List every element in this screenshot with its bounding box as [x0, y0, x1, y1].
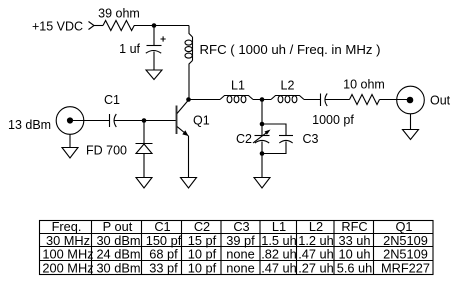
- diode FD 700 cathode bar: [136, 143, 153, 145]
- svg-text:33 pf: 33 pf: [149, 260, 178, 275]
- svg-text:C3: C3: [303, 132, 319, 146]
- transistor Q1 emitter lead: [177, 127, 189, 137]
- svg-text:.47 uh: .47 uh: [261, 260, 297, 275]
- plus polarity mark: [161, 36, 166, 41]
- inductor RFC: [185, 37, 193, 61]
- inductor L1: [220, 96, 253, 103]
- ground under input connector: [62, 148, 78, 159]
- input connector J1: [56, 107, 84, 135]
- svg-text:P out: P out: [103, 219, 133, 234]
- transistor Q1 collector lead: [177, 100, 189, 114]
- table row 30 MHz: [46, 233, 428, 248]
- table row 200 MHz: [42, 260, 430, 275]
- wire R 10 ohm to output connector: [380, 99, 408, 101]
- svg-text:30 dBm: 30 dBm: [96, 260, 140, 275]
- wire node down to diode: [143, 121, 145, 144]
- svg-text:Out: Out: [430, 94, 451, 108]
- svg-text:RFC: RFC: [341, 219, 367, 234]
- wire input connector to ground: [69, 134, 71, 147]
- capacitor 1 uf curved plate: [146, 51, 161, 54]
- node junction dot L1/L2/C2: [260, 97, 265, 102]
- wire L2 to 1000 pf: [304, 99, 321, 101]
- wire C2 bottom to node: [261, 142, 263, 154]
- svg-text:C3: C3: [233, 219, 249, 234]
- capacitor C1 flat plate: [109, 114, 111, 127]
- svg-text:+15 VDC: +15 VDC: [32, 20, 83, 34]
- wire L1 to node: [253, 99, 271, 101]
- capacitor C2 curved plate: [255, 140, 269, 143]
- svg-text:C2: C2: [194, 219, 210, 234]
- svg-text:39 ohm: 39 ohm: [98, 7, 140, 21]
- wire emitter to ground: [188, 136, 190, 178]
- svg-text:Q1: Q1: [193, 114, 210, 128]
- node collector junction dot: [186, 97, 191, 102]
- wire top rail corner down to RFC: [189, 26, 193, 38]
- capacitor C3 curved plate: [279, 140, 292, 143]
- svg-text:13 dBm: 13 dBm: [8, 118, 51, 132]
- output connector J2: [397, 86, 425, 114]
- transistor Q1 base bar: [176, 106, 178, 135]
- node junction dot C2/C3 top: [260, 122, 265, 127]
- table header row: [52, 219, 413, 234]
- input connector center pin: [67, 117, 73, 123]
- diode FD 700 triangle: [136, 144, 152, 154]
- ground under emitter: [181, 178, 197, 189]
- table column lines: [92, 221, 374, 275]
- wire C bypass to ground: [153, 52, 155, 71]
- svg-text:L1: L1: [272, 219, 286, 234]
- ground under diode: [136, 178, 152, 189]
- wire RFC to collector node: [189, 61, 193, 100]
- wire branch to C3 top: [262, 124, 286, 136]
- capacitor C2 trimmer arrow shaft: [253, 133, 267, 143]
- wire node down to C2: [261, 100, 263, 136]
- wire C3 bottom return: [262, 142, 286, 154]
- output connector center pin: [407, 97, 414, 104]
- capacitor C3 top plate: [279, 135, 293, 137]
- wire input to C1: [70, 120, 110, 122]
- svg-text:5.6 uh: 5.6 uh: [337, 260, 373, 275]
- transistor Q1 emitter arrowhead: [182, 130, 188, 136]
- svg-text:200 MHz: 200 MHz: [42, 260, 93, 275]
- wire output connector to ground: [410, 114, 412, 130]
- capacitor C2 trimmer arrowhead: [265, 130, 271, 135]
- svg-text:L2: L2: [281, 79, 295, 93]
- inductor L2: [271, 96, 304, 103]
- node junction dot supply: [152, 23, 157, 28]
- wire R1 to RFC corner: [134, 25, 189, 27]
- wire node to ground: [261, 154, 263, 178]
- wire collector node to L1: [189, 99, 221, 101]
- resistor 10 ohm: [350, 95, 380, 105]
- capacitor 1000 pf curved plate: [325, 94, 327, 107]
- capacitor 1 uf top plate: [147, 45, 162, 47]
- svg-text:C2: C2: [236, 132, 252, 146]
- capacitor 1000 pf flat plate: [320, 94, 322, 107]
- ground under 1 uf: [146, 70, 162, 80]
- svg-text:.27 uh: .27 uh: [298, 260, 334, 275]
- svg-text:Q1: Q1: [395, 219, 412, 234]
- svg-text:C1: C1: [104, 93, 120, 107]
- power input chevron connector: [89, 22, 95, 30]
- svg-text:Freq.: Freq.: [52, 219, 82, 234]
- wire node down to C bypass: [153, 26, 155, 46]
- node junction dot C2/C3 bottom: [260, 151, 265, 156]
- svg-text:1 uf: 1 uf: [119, 42, 140, 56]
- wire 1000 pf to R 10 ohm: [326, 99, 350, 101]
- ground under C2/C3: [254, 178, 270, 189]
- svg-text:L2: L2: [309, 219, 323, 234]
- svg-text:FD 700: FD 700: [86, 144, 127, 158]
- ground under output connector: [403, 130, 419, 140]
- svg-text:none: none: [226, 260, 254, 275]
- capacitor C2 top plate: [255, 135, 270, 137]
- table row 100 MHz: [42, 247, 428, 262]
- svg-text:MRF227: MRF227: [381, 260, 430, 275]
- capacitor C1 curved plate: [114, 114, 116, 127]
- table row lines: [40, 234, 434, 261]
- svg-text:RFC ( 1000 uh / Freq. in MHz ): RFC ( 1000 uh / Freq. in MHz ): [200, 42, 381, 57]
- wire diode to ground: [143, 154, 145, 178]
- wire chevron to R1: [94, 25, 103, 27]
- svg-text:L1: L1: [231, 79, 245, 93]
- svg-text:10 ohm: 10 ohm: [343, 78, 385, 92]
- resistor 39 ohm: [103, 21, 134, 31]
- wire C1 to base: [115, 120, 177, 122]
- node junction dot base/diode: [142, 118, 147, 123]
- svg-text:C1: C1: [154, 219, 170, 234]
- svg-text:10 pf: 10 pf: [188, 260, 217, 275]
- table outer border: [40, 221, 434, 275]
- svg-text:1000 pf: 1000 pf: [312, 113, 354, 127]
